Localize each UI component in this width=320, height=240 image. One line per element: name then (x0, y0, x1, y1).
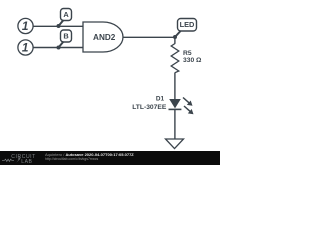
node LED junction dot (173, 35, 177, 39)
footer credit line 2 (45, 158, 98, 162)
node A junction dot (57, 24, 61, 28)
svg-text:LAB: LAB (21, 159, 32, 165)
svg-text:AND2: AND2 (93, 33, 116, 42)
probe flag A (59, 20, 64, 26)
svg-text:LED: LED (180, 20, 195, 29)
footer credit line 1 (45, 153, 134, 157)
probe flag LED (175, 31, 181, 37)
svg-text:R5: R5 (183, 50, 192, 57)
wire gate output to node LED (123, 36, 176, 38)
CircuitLab logo (0, 151, 44, 165)
svg-text:D1: D1 (156, 96, 165, 103)
LED D1 cathode bar (169, 108, 182, 110)
source V1 (logic 1, input A) (18, 18, 33, 33)
svg-text:LTL-307EE: LTL-307EE (132, 104, 167, 111)
svg-text:330 Ω: 330 Ω (183, 57, 202, 64)
ground (166, 139, 184, 149)
wire net A (source 1 to gate input 1) (33, 25, 83, 27)
source V2 (logic 1, input B) (18, 40, 33, 55)
node B junction dot (57, 46, 61, 50)
wire resistor R5 to diode D1 (174, 73, 176, 100)
AND gate AND2 (83, 22, 123, 52)
svg-text:1: 1 (22, 41, 29, 55)
probe flag B (59, 42, 64, 48)
wire node LED down to resistor R5 (174, 37, 176, 44)
resistor R5 zigzag (171, 44, 179, 73)
LED D1 triangle (169, 99, 181, 108)
LED emission arrow 1 (183, 98, 189, 103)
svg-text:1: 1 (22, 19, 29, 33)
LED emission arrow 2 (184, 106, 190, 111)
svg-text:A: A (63, 10, 69, 19)
wire net B (source 2 to gate input 2) (33, 47, 83, 49)
svg-text:B: B (63, 32, 68, 41)
wire diode D1 to ground (174, 110, 176, 140)
footer bar (0, 151, 220, 165)
